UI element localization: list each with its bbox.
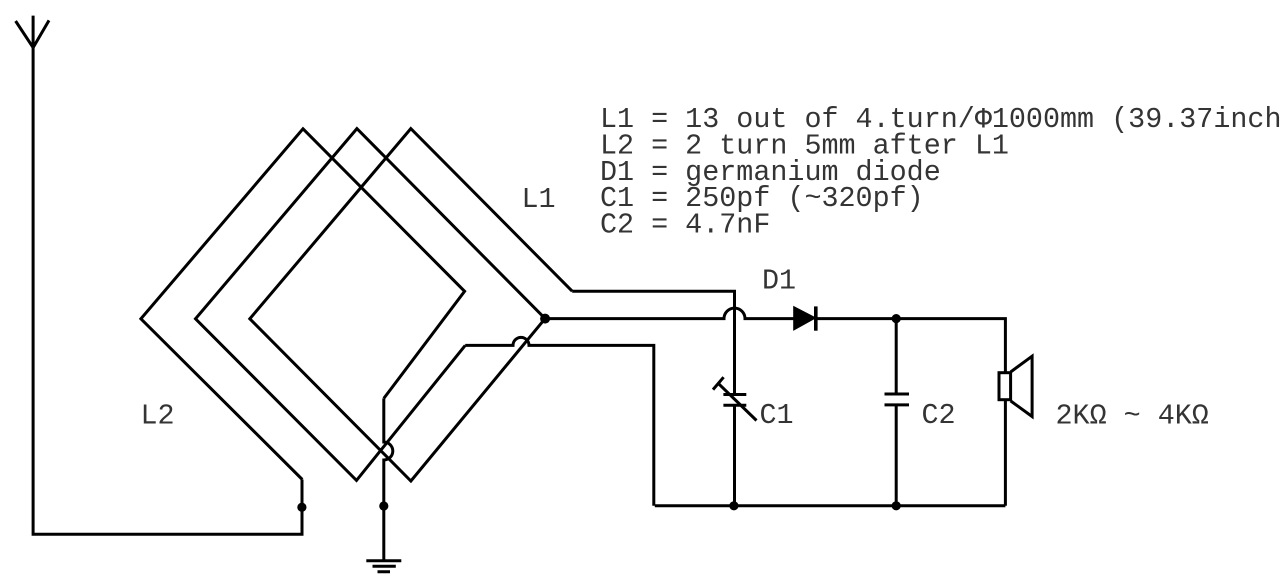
wire C2 bottom lead (895, 405, 898, 506)
inductor L1 inner turn (196, 129, 546, 481)
svg-text:C2 = 4.7nF: C2 = 4.7nF (600, 208, 770, 241)
wire C2 top lead (895, 319, 898, 394)
inductor L2 (141, 129, 465, 480)
diode D1 (794, 306, 816, 330)
wire L1 inner end to bottom rail (hops over L1 turn) (465, 337, 654, 505)
capacitor C2 (885, 394, 910, 405)
capacitor C1 (variable) (713, 377, 757, 420)
wire speaker bottom lead (1004, 400, 1007, 506)
node ground junction (379, 501, 388, 510)
node C2 bottom junction (892, 501, 901, 510)
wire C1 bottom lead (733, 405, 736, 506)
svg-text:C2: C2 (922, 399, 956, 432)
svg-text:2KΩ ~ 4KΩ: 2KΩ ~ 4KΩ (1056, 400, 1209, 433)
node C2 top junction (892, 314, 901, 323)
antenna (16, 16, 49, 48)
svg-text:L1: L1 (522, 183, 556, 216)
node L1 tap (540, 314, 550, 324)
wire D1 cathode to speaker top (816, 319, 1006, 373)
svg-text:C1: C1 (760, 399, 794, 432)
node C1 bottom junction (729, 501, 738, 510)
svg-text:D1: D1 (762, 265, 796, 298)
wire antenna lead to L2 (33, 48, 302, 535)
wire L1 outer end to C1 top (572, 291, 734, 394)
ground (366, 561, 401, 572)
wire tap rail to D1 anode (hops over C1 branch) (545, 308, 794, 319)
wire L2 to ground (hops over L1) (384, 398, 393, 560)
inductor L1 outer turn (250, 129, 572, 481)
wire bottom rail (655, 504, 1006, 507)
speaker LS1 (999, 356, 1032, 416)
svg-text:L2: L2 (141, 400, 175, 433)
node antenna/L2 junction (297, 503, 306, 512)
